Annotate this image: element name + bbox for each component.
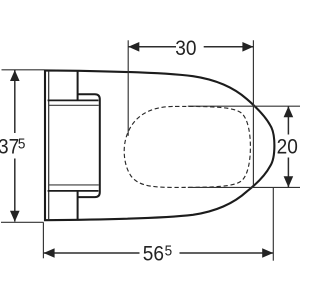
- svg-text:37: 37: [0, 136, 19, 159]
- dim 20 arrow up: [284, 106, 294, 117]
- dim 30 extension line left: [127, 40, 129, 136]
- dim 37.5 arrow up: [10, 70, 20, 81]
- dim 30 extension line right: [252, 40, 254, 185]
- dim 20 extension line bottom: [188, 186, 300, 188]
- dim 20 extension line top: [188, 105, 300, 107]
- dim 30 line: [128, 46, 176, 48]
- dim 56.5 arrow right: [262, 248, 273, 258]
- bracket lower shelf line: [48, 190, 99, 192]
- dim 56.5 line: [44, 252, 140, 254]
- dim 20 line: [287, 106, 289, 134]
- lid back edge thin line: [48, 71, 50, 220]
- lower shelf thin inner line: [49, 184, 99, 186]
- svg-text:56: 56: [143, 243, 164, 266]
- dim 30 arrow right: [242, 42, 253, 52]
- dim 37.5 extension line bottom: [1, 221, 44, 223]
- svg-text:5: 5: [165, 243, 173, 260]
- dim 56.5 extension line left: [42, 222, 44, 258]
- dim 37.5 arrow down: [10, 211, 20, 222]
- svg-text:20: 20: [277, 136, 298, 159]
- dim 56.5 extension line right: [272, 188, 274, 261]
- dim 56.5 arrow left: [44, 248, 55, 258]
- pan outline (WC ceramic top view): [45, 70, 274, 220]
- dim 37.5 line: [14, 70, 16, 133]
- svg-text:5: 5: [18, 136, 26, 153]
- dim 30 arrow left: [128, 42, 139, 52]
- upper shelf thin inner line: [49, 104, 99, 106]
- bracket upper shelf line: [48, 99, 99, 101]
- cistern bracket outline: [78, 71, 100, 220]
- svg-text:30: 30: [175, 37, 196, 60]
- inner bowl dashed outline: [124, 106, 250, 187]
- dim 20 arrow down: [284, 176, 294, 187]
- dim 37.5 extension line top: [2, 69, 45, 71]
